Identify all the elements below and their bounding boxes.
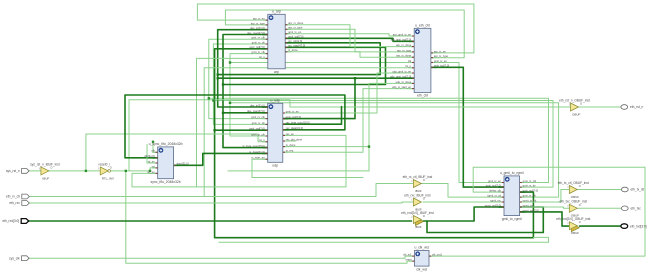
wire net arp_tx_en loop (197, 4, 474, 53)
wire net fifo din (125, 95, 345, 158)
wire net udp_tx_done vert (369, 83, 414, 170)
wire net udp_tx_req (283, 89, 414, 153)
svg-text:gmii_tx_en: gmii_tx_en (434, 59, 448, 63)
wire net gmii_txd (431, 67, 504, 187)
wire net fifo rd_en (147, 145, 158, 164)
svg-text:gmii_rx_clk: gmii_rx_clk (251, 36, 265, 40)
wire net eth_rst_n (129, 100, 571, 171)
junction srcip t (217, 73, 219, 75)
svg-text:sys_rst_n: sys_rst_n (6, 169, 20, 173)
svg-text:gmii_tx_en: gmii_tx_en (286, 109, 300, 113)
svg-text:sys_clk: sys_clk (9, 256, 20, 260)
svg-text:arp_rx_type: arp_rx_type (397, 48, 412, 52)
wire net gmii_rxd loop (215, 49, 534, 238)
wire net sys_clk (29, 256, 414, 258)
buffer eth_txc_OBUF_inst (559, 200, 587, 218)
wire net arp_gmii_tx_en (285, 34, 414, 36)
junction loop rxclk (208, 97, 210, 99)
svg-text:reset0_i: reset0_i (99, 162, 111, 166)
junction fifo clk (152, 141, 154, 143)
wire net eth_rxc in (29, 202, 413, 203)
svg-text:OBUF: OBUF (572, 112, 581, 116)
buffer eth_txd[3:0]_OBUF_inst (556, 217, 590, 235)
svg-text:rd_en: rd_en (148, 159, 155, 163)
wire net udp_gmii_txd ext (218, 77, 355, 79)
wire net gmii_rx_dv branch (213, 101, 267, 125)
wire net clk out1 (429, 167, 645, 256)
svg-text:IBUF: IBUF (42, 176, 49, 180)
svg-text:dout[31:0]: dout[31:0] (177, 162, 189, 166)
input port sys_rst_n (6, 169, 29, 174)
wire net gmii_rxd branch (215, 129, 268, 131)
svg-text:gmii_rx_clk: gmii_rx_clk (251, 115, 265, 119)
svg-text:gmii_tx_en: gmii_tx_en (288, 30, 302, 34)
input port eth_rxd[3:0] (2, 219, 28, 224)
wire net src_mac (223, 35, 386, 85)
svg-text:des_mac[47:0]: des_mac[47:0] (247, 109, 265, 113)
wire net eth_rxd in (29, 220, 412, 222)
wire net src_mac branch1 (223, 85, 268, 148)
svg-text:eth_txd[3:0]_OBUF_inst: eth_txd[3:0]_OBUF_inst (556, 217, 590, 221)
svg-text:gmii_rx_dv: gmii_rx_dv (523, 184, 537, 188)
svg-text:arp_gmii_tx_en: arp_gmii_tx_en (393, 32, 412, 36)
junction udp txd v (354, 77, 356, 79)
svg-text:eth_rxc_IBUF_inst: eth_rxc_IBUF_inst (404, 193, 430, 197)
svg-text:gmii_txd[7:0]: gmii_txd[7:0] (486, 184, 501, 188)
svg-text:des_ip[31:0]: des_ip[31:0] (250, 103, 265, 107)
module u_eth_ctrl (390, 24, 449, 98)
svg-text:RTL_INV: RTL_INV (102, 176, 114, 180)
svg-text:eth_tx_ctl: eth_tx_ctl (631, 188, 645, 192)
svg-text:arp: arp (274, 70, 279, 74)
svg-text:u_eth_ctrl: u_eth_ctrl (415, 24, 430, 28)
svg-text:arp_tx_en: arp_tx_en (253, 17, 265, 21)
svg-text:rgmii_rxc: rgmii_rxc (490, 198, 502, 202)
wire net rgmii_rxd (423, 207, 504, 221)
svg-text:IBUF: IBUF (415, 189, 422, 193)
wire net clkwiz reset (126, 171, 415, 263)
svg-text:eth_txc_OBUF_inst: eth_txc_OBUF_inst (559, 200, 587, 204)
junction rst inv out a (125, 170, 127, 172)
svg-text:src_ip[31:0]: src_ip[31:0] (288, 39, 302, 43)
wire net arp_rx_done (285, 25, 414, 47)
svg-text:des_mac[47:0]: des_mac[47:0] (247, 31, 265, 35)
svg-text:clk_wiz: clk_wiz (416, 267, 427, 271)
svg-text:arp_tx_done: arp_tx_done (396, 54, 411, 58)
wire net rec_pkt_done (283, 140, 296, 142)
svg-text:udp_gmii_tx_en: udp_gmii_tx_en (392, 69, 411, 73)
svg-text:gmii_rx_clk: gmii_rx_clk (523, 179, 537, 183)
module u_gmii_to_rgmii (485, 171, 539, 221)
junction rxd branch (213, 129, 215, 131)
wire net rgmii_tx_ctl (520, 190, 570, 203)
svg-text:rgmii_tx_ctl: rgmii_tx_ctl (523, 198, 537, 202)
svg-text:eth_rxd[3:0]: eth_rxd[3:0] (2, 219, 19, 223)
svg-text:gmii_to_rgmii: gmii_to_rgmii (502, 217, 522, 221)
junction rst ibuf (85, 170, 87, 172)
wire net rec_en return (197, 135, 347, 187)
svg-text:arp_tx_type: arp_tx_type (434, 54, 449, 58)
svg-text:gmii_tx_clk: gmii_tx_clk (252, 50, 266, 54)
wire net gmii_rx_clk loop (209, 39, 549, 182)
svg-text:arp_rx_done: arp_rx_done (288, 21, 304, 25)
svg-text:eth_rxd[3:0]_IBUF_inst: eth_rxd[3:0]_IBUF_inst (401, 211, 434, 215)
svg-text:udp: udp (272, 164, 278, 168)
svg-text:gmii_rxd[7:0]: gmii_rxd[7:0] (523, 189, 539, 193)
svg-text:arp_rx_done: arp_rx_done (396, 43, 412, 47)
wire net udp_tx_done (283, 146, 369, 148)
output port eth_txd[3:0] (621, 224, 647, 229)
wire net udp_gmii_tx_en (283, 73, 414, 113)
svg-text:OBUF: OBUF (571, 231, 580, 235)
svg-text:arp_tx_type: arp_tx_type (251, 21, 266, 25)
svg-text:gmii_rx_dv: gmii_rx_dv (252, 121, 266, 125)
wire net rgmii_rxc (423, 201, 504, 203)
module u_clk_wiz (403, 246, 442, 272)
svg-text:clk_out1: clk_out1 (432, 253, 443, 257)
junction loop txclk (229, 102, 231, 104)
svg-text:reset: reset (406, 258, 412, 262)
svg-text:eth_rxc: eth_rxc (9, 201, 20, 205)
svg-text:tx_data[31:0]: tx_data[31:0] (249, 150, 265, 154)
wire net eth_rx_ctl in (29, 184, 413, 197)
svg-text:eth_tx_ctl_OBUF_inst: eth_tx_ctl_OBUF_inst (558, 181, 589, 185)
buffer sys_rst_n_IBUF_inst (30, 162, 60, 180)
svg-text:eth_rst_n: eth_rst_n (630, 105, 644, 109)
junction srcmac b (222, 112, 224, 114)
wire net gmii_tx_en (431, 63, 504, 183)
wire net rec_byte_num (283, 107, 342, 125)
output port eth_rst_n (621, 105, 644, 110)
input port eth_rxc (9, 201, 29, 206)
svg-text:arp_tx_en: arp_tx_en (434, 49, 446, 53)
junction ethctrl clk (229, 61, 231, 63)
wire net gmii_rx_clk branch (209, 98, 268, 118)
svg-text:arp_rx_type: arp_rx_type (288, 26, 303, 30)
svg-text:u_clk_wiz: u_clk_wiz (414, 246, 429, 250)
wire net gmii_rx_dv loop (213, 44, 553, 187)
wire net src_ip branch (218, 75, 268, 107)
module u_sync_fifo_2048x32b (144, 142, 188, 184)
buffer eth_rxd[3:0]_IBUF_inst (401, 211, 434, 229)
wire net fifo rst (150, 168, 158, 171)
svg-text:eth_txd[3:0]: eth_txd[3:0] (630, 224, 647, 228)
wire net eth_rx_ctl ibuf out (421, 183, 448, 185)
svg-text:rst_n: rst_n (259, 138, 265, 142)
junction srcmac t (222, 83, 224, 85)
wire net rst_n up (86, 134, 268, 171)
svg-text:gmii_txd[7:0]: gmii_txd[7:0] (288, 35, 303, 39)
wire net eth_txc out (578, 207, 621, 209)
buffer eth_rxc_IBUF_inst (404, 193, 430, 211)
wire net fifo dout (174, 153, 268, 165)
svg-text:gmii_tx_clk: gmii_tx_clk (251, 132, 265, 136)
wire net fifo clk (153, 142, 158, 153)
svg-text:din[31:0]: din[31:0] (144, 154, 155, 158)
svg-text:arp_gmii_txd[7:0]: arp_gmii_txd[7:0] (391, 38, 412, 42)
buffer eth_tx_ctl_OBUF_inst (558, 181, 589, 199)
svg-text:src_mac[47:0]: src_mac[47:0] (288, 44, 305, 48)
svg-text:gmii_tx_clk: gmii_tx_clk (523, 194, 537, 198)
svg-text:rgmii_txc: rgmii_txc (523, 203, 534, 207)
wire net rgmii_rx_ctl (448, 184, 504, 198)
wire net eth_tx_ctl out (578, 189, 621, 191)
svg-text:u_arp: u_arp (272, 10, 281, 14)
svg-text:udp_gmii_txd[7:0]: udp_gmii_txd[7:0] (390, 75, 411, 79)
module u_udp (243, 99, 310, 168)
svg-text:eth_txc: eth_txc (631, 207, 642, 211)
svg-text:u_udp: u_udp (270, 99, 280, 103)
wire net arp_gmii_txd (285, 38, 414, 41)
svg-text:rec_byte_num[15:0]: rec_byte_num[15:0] (286, 121, 310, 125)
svg-text:rst: rst (152, 164, 155, 168)
wire net rgmii_txd (520, 212, 569, 226)
input port eth_rx_ctl (6, 194, 29, 199)
svg-text:rec_data[31:0]: rec_data[31:0] (286, 126, 303, 130)
svg-text:rec_pkt_done: rec_pkt_done (286, 137, 303, 141)
svg-text:rgmii_rxd[3:0]: rgmii_rxd[3:0] (485, 203, 502, 207)
wire net udp tx_start_en (252, 159, 363, 177)
svg-text:gmii_txd[7:0]: gmii_txd[7:0] (434, 64, 449, 68)
svg-text:OBUF: OBUF (571, 195, 580, 199)
svg-text:gmii_txd[7:0]: gmii_txd[7:0] (286, 115, 301, 119)
input port sys_clk (9, 256, 29, 261)
buffer reset0_i (98, 162, 114, 180)
wire net gmii_tx_clk loop (230, 54, 559, 198)
module u_arp (247, 10, 305, 75)
svg-text:udp_tx_start_en: udp_tx_start_en (392, 85, 412, 89)
svg-text:gmii_rxd[7:0]: gmii_rxd[7:0] (249, 127, 265, 131)
wire net arp_rx_type (285, 29, 414, 52)
junction rst inv out b (149, 170, 151, 172)
buffer eth_rx_ctl_IBUF_inst (403, 175, 433, 193)
svg-text:des_ip[31:0]: des_ip[31:0] (250, 26, 265, 30)
wire net bottom light loop (219, 237, 549, 242)
junction txdone (368, 145, 370, 147)
svg-text:sync_fifo_2048x32b: sync_fifo_2048x32b (151, 180, 181, 184)
svg-text:u_sync_fifo_2048x32b: u_sync_fifo_2048x32b (149, 142, 183, 146)
svg-text:eth_rx_ctl: eth_rx_ctl (6, 195, 20, 199)
svg-text:clk_in1: clk_in1 (403, 253, 412, 257)
wire net fifo wr_en (132, 173, 197, 187)
svg-text:tx_byte_num[15:0]: tx_byte_num[15:0] (243, 144, 265, 148)
wire net gmii_tx_clk branch (230, 103, 268, 136)
svg-text:gmii_rx_dv: gmii_rx_dv (252, 40, 266, 44)
svg-text:idelay_clk: idelay_clk (489, 189, 501, 193)
svg-text:eth_ctrl: eth_ctrl (417, 94, 428, 98)
wire net rst inv out (110, 170, 150, 172)
svg-text:IBUF: IBUF (415, 225, 422, 229)
wire net sys_rst_n ibuf out (47, 170, 100, 172)
wire net rgmii_rxd loop (427, 207, 543, 233)
svg-text:tx_start_en: tx_start_en (251, 156, 265, 160)
wire net udp_gmii_txd (283, 78, 414, 118)
junction loop rxdv (212, 99, 214, 101)
svg-text:eth_rx_ctl_IBUF_inst: eth_rx_ctl_IBUF_inst (403, 175, 433, 179)
wire net src_mac branch2 (223, 112, 268, 114)
buffer eth_rst_n_OBUF_inst (559, 98, 590, 116)
svg-text:eth_rst_n_OBUF_inst: eth_rst_n_OBUF_inst (559, 98, 590, 102)
svg-text:u_gmii_to_rgmii: u_gmii_to_rgmii (500, 171, 524, 175)
svg-text:udp_tx_done: udp_tx_done (396, 80, 412, 84)
svg-text:O: O (110, 165, 112, 169)
wire net eth_rst_n out (579, 106, 621, 108)
wire net arp_tx_done (285, 52, 414, 57)
svg-text:rec_en: rec_en (286, 132, 295, 136)
svg-text:tx_done: tx_done (288, 48, 298, 52)
svg-text:rst_n: rst_n (405, 64, 411, 68)
wire net ethctrl rst_n (204, 68, 414, 197)
wire net rst ext (228, 170, 369, 172)
svg-text:rst_n: rst_n (259, 55, 265, 59)
svg-text:wr_en: wr_en (147, 170, 155, 174)
wire net arp rst_n (197, 58, 268, 187)
svg-text:sys_rst_n_IBUF_inst: sys_rst_n_IBUF_inst (30, 162, 60, 166)
wire net eth_txd out (580, 225, 621, 227)
wire net arp_tx_type loop (225, 10, 464, 58)
wire net sys_rst_n port (29, 170, 41, 172)
svg-text:gmii_rxd[7:0]: gmii_rxd[7:0] (249, 45, 265, 49)
svg-text:gmii_tx_en: gmii_tx_en (488, 179, 502, 183)
junction udp txd ext (217, 77, 219, 79)
wire net rgmii_txc (520, 207, 570, 208)
svg-text:rgmii_txd[3:0]: rgmii_txd[3:0] (523, 208, 539, 212)
svg-text:tx_done: tx_done (286, 143, 296, 147)
wire net ethctrl clk branch (230, 62, 414, 64)
svg-text:tx_req: tx_req (286, 149, 294, 153)
svg-text:rgmii_rx_ctl: rgmii_rx_ctl (487, 194, 501, 198)
output port eth_tx_ctl (621, 187, 644, 192)
output port eth_txc (621, 206, 641, 211)
wire net src_ip (218, 30, 381, 75)
